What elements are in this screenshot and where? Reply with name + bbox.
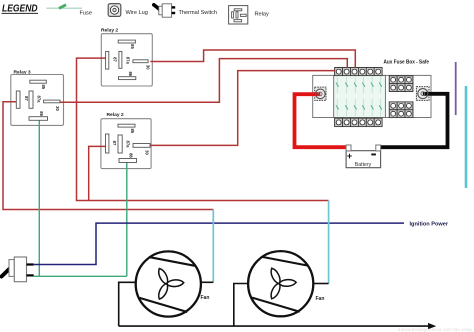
relay U1 pins xyxy=(106,40,151,80)
relay U1 "Relay 2" top box xyxy=(101,28,152,87)
wire relay3 pin30 red: to fuse box top terminal 2 xyxy=(60,59,347,103)
svg-text:Ignition Power: Ignition Power xyxy=(410,222,449,228)
svg-text:Thermal Switch: Thermal Switch xyxy=(179,10,218,16)
legend wire lug symbol xyxy=(108,4,121,17)
wire cyan drop to left fan xyxy=(212,210,214,283)
legend title LEGEND xyxy=(2,3,39,15)
svg-text:Fuse: Fuse xyxy=(80,11,92,17)
wire black right fan positive stub xyxy=(313,283,328,285)
battery B1 box xyxy=(346,151,381,168)
legend fuse symbol xyxy=(47,4,83,10)
aux fuse box main body xyxy=(313,60,431,118)
fan M1 left xyxy=(136,251,210,316)
wire top relay2 pin30 red: to fuse box top terminal 3 xyxy=(150,50,355,68)
svg-text:87: 87 xyxy=(112,141,117,146)
wire bottom relay2 pin30 red: to fuse box top terminal 1 xyxy=(150,71,335,146)
fuse box bottom terminal row xyxy=(335,118,382,126)
svg-text:87: 87 xyxy=(24,96,29,101)
svg-text:30: 30 xyxy=(145,65,150,70)
svg-text:87a: 87a xyxy=(37,96,42,104)
relay U2 "Relay 2" bottom box xyxy=(101,112,151,169)
svg-text:Fan: Fan xyxy=(316,296,325,302)
relay U3 "Relay 3" box xyxy=(11,70,64,126)
svg-text:85: 85 xyxy=(41,84,46,89)
relay U2 pins xyxy=(106,124,151,162)
wire bottom relay2 pin86 green down to thermal switch xyxy=(126,163,128,277)
wire black right fan negative xyxy=(234,284,249,327)
wire purple right edge stub xyxy=(455,62,457,115)
svg-text:Aux Fuse Box - Safe: Aux Fuse Box - Safe xyxy=(384,60,430,66)
svg-text:30: 30 xyxy=(145,150,150,155)
svg-text:Relay: Relay xyxy=(255,12,270,18)
fuse box left lug rings xyxy=(316,89,326,99)
fuse box top terminal row xyxy=(335,68,382,76)
fuse box right wire lug square xyxy=(416,87,429,101)
wire black ground bus with arrow xyxy=(119,323,437,329)
wire relay3 pin86 green down to thermal switch xyxy=(38,120,40,276)
legend thermal switch symbol xyxy=(154,4,175,17)
svg-text:85: 85 xyxy=(130,128,135,133)
wire top relay2 pin87 red: down to right fan feed xyxy=(77,58,329,200)
svg-text:+: + xyxy=(347,151,352,161)
svg-text:LEGEND: LEGEND xyxy=(2,3,38,15)
wire cyan right edge stub xyxy=(465,86,468,188)
wire relay3 pin87 red: left edge down to left fan feed xyxy=(3,102,213,210)
legend relay symbol xyxy=(229,6,248,24)
svg-text:87a: 87a xyxy=(126,57,131,65)
wire black left fan positive stub xyxy=(201,281,213,283)
svg-text:easyautodiagnostics.com fan re: easyautodiagnostics.com fan relay xyxy=(398,327,473,332)
wire thick black battery negative to fuse box lug xyxy=(381,94,448,147)
battery terminal stubs xyxy=(346,145,380,151)
svg-text:Wire Lug: Wire Lug xyxy=(126,10,148,16)
wire cyan drop to right fan xyxy=(328,201,330,284)
fuse panel xyxy=(334,75,386,117)
svg-text:Battery: Battery xyxy=(355,162,372,168)
wire black left fan negative xyxy=(119,282,136,326)
wire bottom relay2 pin87 red: drop to fan feed bus xyxy=(89,146,106,201)
wire thick red battery positive to fuse box lug xyxy=(295,94,347,147)
svg-text:86: 86 xyxy=(128,71,133,76)
svg-text:Relay 2: Relay 2 xyxy=(101,28,118,34)
svg-text:87: 87 xyxy=(112,57,117,62)
svg-text:Fan: Fan xyxy=(201,295,210,301)
fuse box left wire lug square xyxy=(315,87,326,100)
svg-text:Relay 2: Relay 2 xyxy=(107,112,124,118)
fuse box lower right terminal grid xyxy=(389,102,413,118)
wire navy ignition power to thermal switch xyxy=(34,223,404,264)
thermal switch S1 xyxy=(2,257,34,282)
fan M2 right xyxy=(248,251,324,316)
svg-text:87a: 87a xyxy=(126,141,131,149)
wire green horizontal to thermal switch xyxy=(34,275,127,277)
svg-text:86: 86 xyxy=(39,111,44,116)
fuse box upper right terminal grid xyxy=(389,76,413,92)
fuse box right lug rings xyxy=(418,89,428,99)
relay U3 pins xyxy=(16,80,60,120)
svg-text:30: 30 xyxy=(55,106,60,111)
svg-text:86: 86 xyxy=(128,153,133,158)
svg-text:85: 85 xyxy=(130,44,135,49)
